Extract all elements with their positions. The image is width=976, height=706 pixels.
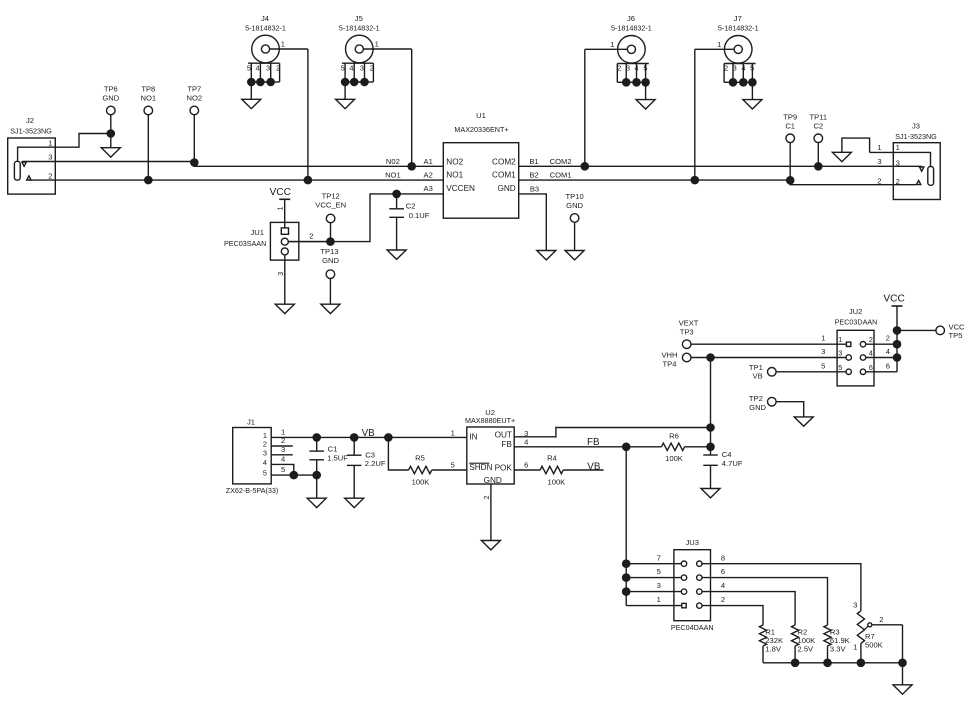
- svg-text:NO1: NO1: [446, 171, 463, 180]
- svg-text:C1: C1: [785, 122, 795, 131]
- svg-text:5: 5: [263, 469, 267, 478]
- svg-text:3: 3: [266, 64, 270, 73]
- svg-text:5: 5: [838, 363, 842, 372]
- svg-text:NO2: NO2: [446, 157, 463, 166]
- svg-text:VCC_EN: VCC_EN: [315, 201, 346, 210]
- svg-text:C2: C2: [406, 202, 416, 211]
- svg-text:3: 3: [877, 157, 881, 166]
- svg-text:5: 5: [643, 64, 647, 73]
- svg-text:1: 1: [451, 428, 455, 437]
- svg-text:TP4: TP4: [663, 359, 677, 368]
- svg-text:N02: N02: [386, 157, 400, 166]
- svg-text:1.5UF: 1.5UF: [327, 454, 348, 463]
- svg-text:4: 4: [349, 64, 353, 73]
- svg-text:8: 8: [721, 553, 725, 562]
- svg-text:5: 5: [750, 64, 754, 73]
- svg-text:NO1: NO1: [385, 170, 401, 179]
- svg-text:2: 2: [309, 231, 313, 240]
- svg-text:J6: J6: [627, 14, 635, 23]
- svg-text:MAX8880EUT+: MAX8880EUT+: [465, 416, 515, 425]
- svg-text:1.8V: 1.8V: [765, 645, 782, 654]
- svg-text:3: 3: [733, 64, 737, 73]
- svg-text:3: 3: [48, 153, 52, 162]
- svg-text:GND: GND: [322, 256, 339, 265]
- svg-text:NO1: NO1: [140, 94, 156, 103]
- svg-text:1: 1: [375, 40, 379, 49]
- svg-text:TP8: TP8: [141, 85, 155, 94]
- svg-text:B2: B2: [529, 170, 538, 179]
- svg-text:COM2: COM2: [550, 157, 572, 166]
- svg-text:100K: 100K: [412, 477, 430, 486]
- svg-text:2: 2: [886, 334, 890, 343]
- svg-text:B1: B1: [529, 157, 538, 166]
- svg-text:4: 4: [886, 347, 890, 356]
- svg-text:4: 4: [869, 349, 873, 358]
- svg-text:3: 3: [276, 272, 285, 276]
- svg-text:FB: FB: [501, 440, 512, 449]
- svg-text:MAX20336ENT+: MAX20336ENT+: [454, 125, 508, 134]
- svg-text:OUT: OUT: [495, 431, 512, 440]
- svg-text:1: 1: [717, 40, 721, 49]
- svg-text:B3: B3: [530, 185, 539, 194]
- svg-text:J5: J5: [355, 14, 363, 23]
- svg-text:IN: IN: [469, 433, 477, 442]
- svg-text:4: 4: [281, 454, 285, 463]
- svg-text:GND: GND: [484, 476, 502, 485]
- svg-text:PEC04DAAN: PEC04DAAN: [671, 623, 714, 632]
- svg-text:PEC03DAAN: PEC03DAAN: [835, 318, 878, 327]
- svg-text:4: 4: [635, 64, 639, 73]
- svg-text:2: 2: [869, 335, 873, 344]
- svg-text:TP6: TP6: [104, 85, 118, 94]
- svg-text:4: 4: [256, 64, 260, 73]
- svg-text:J1: J1: [247, 417, 255, 426]
- svg-text:TP9: TP9: [783, 113, 797, 122]
- svg-text:GND: GND: [566, 201, 583, 210]
- svg-text:2: 2: [721, 595, 725, 604]
- svg-text:1: 1: [281, 40, 285, 49]
- svg-text:VB: VB: [587, 462, 601, 473]
- svg-text:SHDN: SHDN: [469, 463, 492, 472]
- svg-text:VCC: VCC: [949, 322, 966, 331]
- svg-text:2: 2: [48, 171, 52, 180]
- svg-text:TP13: TP13: [320, 247, 338, 256]
- svg-text:TP10: TP10: [566, 192, 584, 201]
- svg-text:GND: GND: [497, 184, 515, 193]
- svg-text:3: 3: [838, 349, 842, 358]
- svg-text:TP12: TP12: [322, 192, 340, 201]
- svg-text:POK: POK: [495, 464, 513, 473]
- svg-text:5: 5: [341, 64, 345, 73]
- svg-text:3: 3: [626, 64, 630, 73]
- svg-text:2: 2: [879, 615, 883, 624]
- svg-text:JU2: JU2: [849, 307, 863, 316]
- svg-text:4: 4: [741, 64, 745, 73]
- svg-text:3: 3: [821, 347, 825, 356]
- svg-text:6: 6: [721, 567, 725, 576]
- svg-text:3.3V: 3.3V: [830, 645, 847, 654]
- svg-text:3: 3: [853, 600, 857, 609]
- svg-text:A3: A3: [424, 184, 433, 193]
- svg-text:JU1: JU1: [250, 228, 264, 237]
- svg-text:2: 2: [724, 64, 728, 73]
- svg-text:JU3: JU3: [685, 538, 699, 547]
- svg-text:GND: GND: [749, 403, 766, 412]
- svg-text:5: 5: [657, 567, 661, 576]
- svg-text:5: 5: [821, 361, 825, 370]
- svg-text:1: 1: [48, 139, 52, 148]
- svg-text:2.2UF: 2.2UF: [365, 459, 386, 468]
- svg-text:VEXT: VEXT: [679, 319, 699, 328]
- svg-text:5-1814832-1: 5-1814832-1: [611, 23, 652, 32]
- svg-text:100K: 100K: [665, 454, 683, 463]
- svg-text:COM1: COM1: [492, 171, 516, 180]
- svg-text:GND: GND: [102, 94, 119, 103]
- svg-text:C2: C2: [813, 122, 823, 131]
- svg-text:5-1814832-1: 5-1814832-1: [718, 23, 759, 32]
- svg-text:J4: J4: [261, 14, 269, 23]
- svg-text:0.1UF: 0.1UF: [409, 211, 430, 220]
- svg-text:VHH: VHH: [661, 351, 677, 360]
- svg-text:6: 6: [524, 461, 528, 470]
- svg-text:1: 1: [853, 643, 857, 652]
- svg-text:ZX62-B-5PA(33): ZX62-B-5PA(33): [226, 486, 279, 495]
- svg-text:5: 5: [451, 461, 455, 470]
- svg-text:TP2: TP2: [749, 394, 763, 403]
- svg-text:2: 2: [276, 64, 280, 73]
- svg-text:5: 5: [247, 64, 251, 73]
- svg-text:3: 3: [263, 448, 267, 457]
- svg-text:3: 3: [657, 581, 661, 590]
- svg-text:2: 2: [482, 495, 491, 499]
- svg-text:SJ1-3523NG: SJ1-3523NG: [895, 132, 937, 141]
- svg-text:1: 1: [838, 335, 842, 344]
- svg-text:VCC: VCC: [883, 294, 905, 305]
- svg-text:SJ1-3523NG: SJ1-3523NG: [10, 127, 52, 136]
- svg-text:2.5V: 2.5V: [798, 645, 815, 654]
- svg-text:2: 2: [617, 64, 621, 73]
- svg-text:4: 4: [524, 438, 528, 447]
- svg-text:R6: R6: [669, 431, 679, 440]
- svg-text:TP5: TP5: [949, 331, 963, 340]
- svg-text:1: 1: [821, 334, 825, 343]
- svg-text:5-1814832-1: 5-1814832-1: [245, 23, 286, 32]
- svg-text:J2: J2: [26, 116, 34, 125]
- svg-text:COM1: COM1: [550, 170, 572, 179]
- svg-text:7: 7: [657, 553, 661, 562]
- svg-text:FB: FB: [587, 437, 600, 448]
- svg-text:PEC03SAAN: PEC03SAAN: [224, 239, 266, 248]
- svg-text:VB: VB: [362, 428, 376, 439]
- svg-text:A2: A2: [424, 170, 433, 179]
- svg-text:3: 3: [360, 64, 364, 73]
- svg-text:C1: C1: [328, 444, 338, 453]
- svg-text:NO2: NO2: [186, 94, 202, 103]
- svg-text:5: 5: [281, 465, 285, 474]
- svg-text:1: 1: [896, 143, 900, 152]
- svg-text:TP11: TP11: [810, 113, 828, 122]
- svg-text:4.7UF: 4.7UF: [722, 459, 743, 468]
- svg-text:TP7: TP7: [187, 85, 201, 94]
- svg-text:1: 1: [657, 595, 661, 604]
- svg-text:1: 1: [610, 40, 614, 49]
- svg-text:5-1814832-1: 5-1814832-1: [339, 23, 380, 32]
- svg-text:1: 1: [877, 143, 881, 152]
- svg-text:VCCEN: VCCEN: [446, 184, 475, 193]
- svg-text:6: 6: [886, 361, 890, 370]
- svg-text:A1: A1: [424, 157, 433, 166]
- svg-text:COM2: COM2: [492, 157, 516, 166]
- svg-text:J7: J7: [734, 14, 742, 23]
- svg-text:R5: R5: [415, 453, 425, 462]
- svg-text:4: 4: [263, 458, 267, 467]
- svg-text:2: 2: [263, 440, 267, 449]
- svg-text:R4: R4: [547, 453, 557, 462]
- svg-text:100K: 100K: [548, 477, 566, 486]
- svg-text:500K: 500K: [865, 641, 883, 650]
- svg-text:U1: U1: [476, 111, 486, 120]
- svg-text:VCC: VCC: [269, 187, 291, 198]
- svg-text:2: 2: [877, 176, 881, 185]
- svg-text:J3: J3: [912, 122, 920, 131]
- svg-text:1: 1: [275, 206, 284, 210]
- svg-text:2: 2: [370, 64, 374, 73]
- svg-text:6: 6: [869, 363, 873, 372]
- svg-text:4: 4: [721, 581, 725, 590]
- svg-text:VB: VB: [753, 372, 763, 381]
- svg-text:TP3: TP3: [680, 327, 694, 336]
